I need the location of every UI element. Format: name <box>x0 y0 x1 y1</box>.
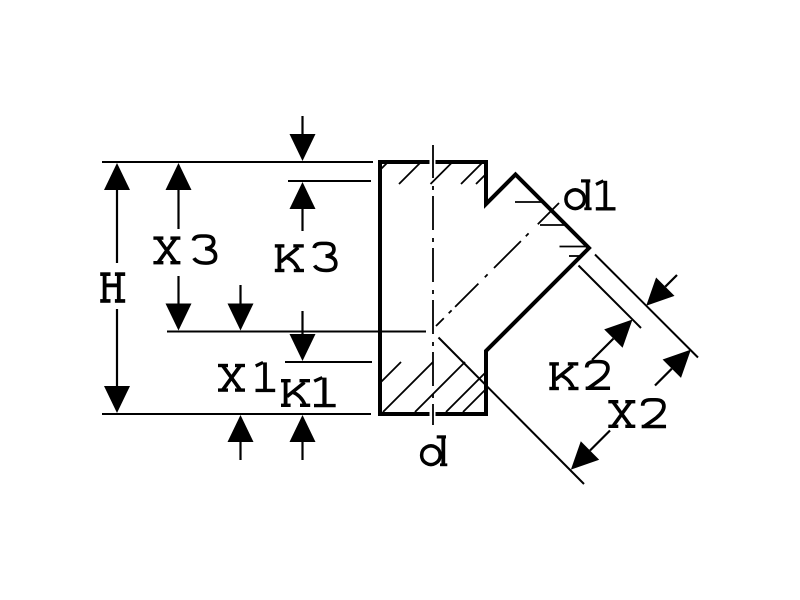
label K1 <box>281 378 336 407</box>
dimension X1 arrows (outside) <box>228 304 254 443</box>
hatching: branch socket (horizontal ticks) <box>515 202 588 256</box>
dimension X2 arrows (45 deg) <box>571 350 691 470</box>
dimension K1 stems <box>301 311 303 460</box>
dimension K2 arrows (outside, 45 deg) <box>604 278 674 348</box>
dimension K3 stems <box>301 116 303 231</box>
bottom reference line (H / X1 / K1 datum) <box>102 413 371 415</box>
branch mouth extension line <box>595 255 698 358</box>
branch 45-deg centerline <box>436 203 559 326</box>
dimension K1 arrows (outside) <box>290 334 316 442</box>
dimension H stems <box>116 190 118 387</box>
main vertical centerline <box>432 145 434 425</box>
label K3 <box>275 243 336 271</box>
K3 socket-depth line <box>288 180 371 182</box>
hatching: top socket band <box>380 162 486 184</box>
label K2 <box>549 362 610 390</box>
top reference line (H / X3 / K3 datum) <box>102 161 373 163</box>
K2 socket-depth extension line <box>579 266 642 329</box>
dimension X2 stems <box>590 369 672 451</box>
dimension K2 stems <box>592 275 677 360</box>
dimension H arrows <box>104 163 130 413</box>
dimension X1 stems <box>239 285 241 460</box>
X2 axis extension line <box>439 338 585 485</box>
hatching: bottom socket band <box>380 362 486 412</box>
label H <box>100 273 125 302</box>
dimension X3 stems <box>177 190 179 304</box>
fitting body outline (vertical pipe with 45-deg branch) <box>436 162 590 414</box>
label d <box>422 436 448 466</box>
label X3 <box>153 236 215 263</box>
dimension K3 arrows (outside) <box>290 134 316 209</box>
label X2 <box>608 400 666 427</box>
label d1 <box>566 180 616 210</box>
dimension X3 arrows <box>166 163 192 331</box>
X1/X3 axis reference line <box>167 331 426 333</box>
label X1 <box>218 362 275 391</box>
K1 socket-depth line <box>285 361 372 363</box>
